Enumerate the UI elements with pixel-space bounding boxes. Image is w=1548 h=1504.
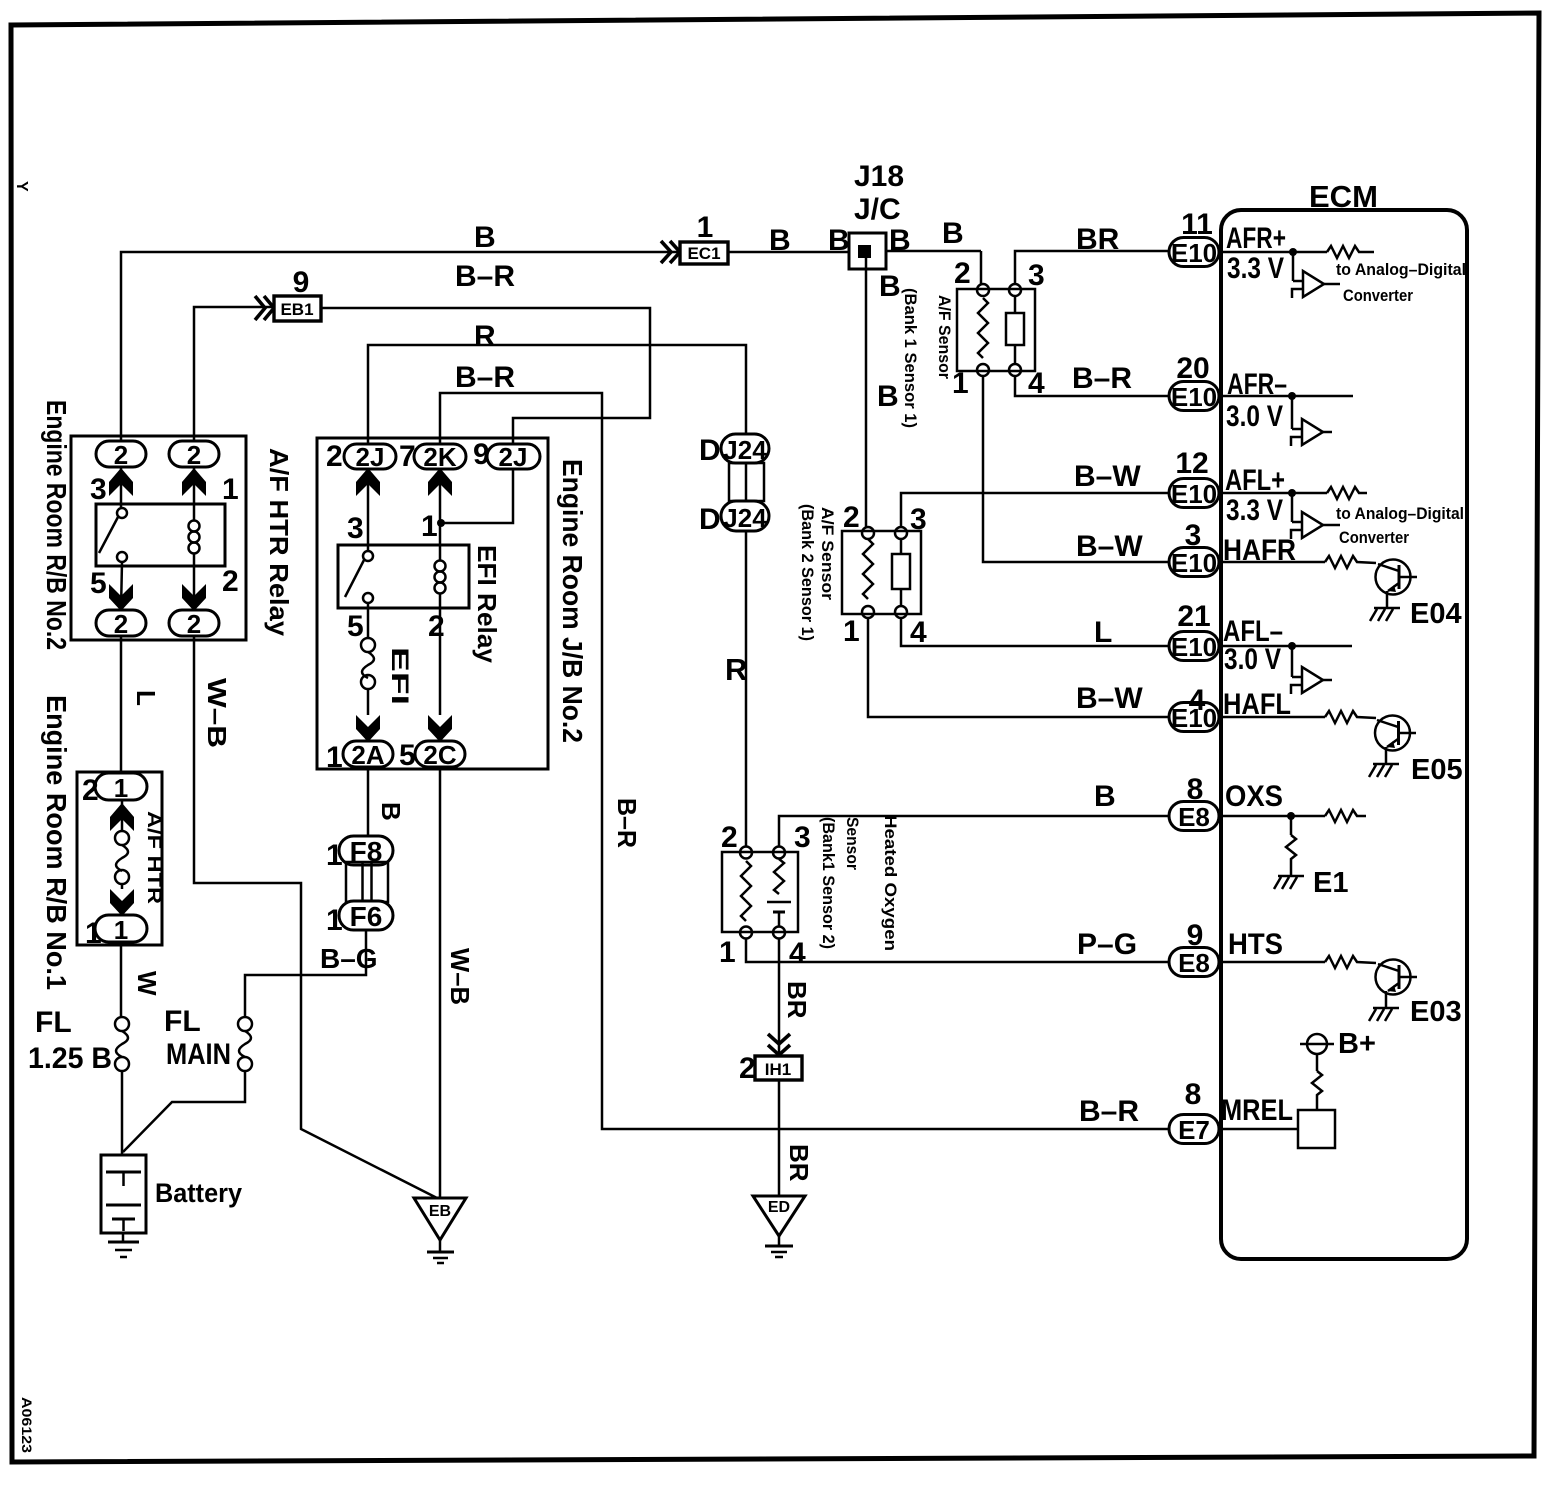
svg-text:IH1: IH1	[765, 1060, 791, 1079]
svg-text:HTS: HTS	[1228, 928, 1283, 961]
svg-text:1: 1	[719, 936, 736, 969]
svg-text:A/F HTR: A/F HTR	[143, 811, 164, 904]
svg-text:E10: E10	[1171, 548, 1217, 578]
svg-text:EC1: EC1	[687, 244, 720, 263]
svg-text:3: 3	[794, 821, 811, 854]
svg-text:B: B	[376, 802, 406, 821]
svg-text:B–G: B–G	[320, 943, 378, 974]
svg-text:B: B	[474, 221, 496, 254]
svg-text:W: W	[132, 971, 162, 996]
svg-text:3.3 V: 3.3 V	[1226, 494, 1283, 527]
svg-text:2: 2	[222, 565, 239, 598]
svg-text:OXS: OXS	[1225, 780, 1283, 813]
svg-text:BR: BR	[784, 1144, 814, 1182]
svg-text:2: 2	[114, 440, 128, 470]
svg-text:4: 4	[1189, 684, 1206, 717]
svg-text:B: B	[877, 380, 899, 413]
svg-text:FL: FL	[35, 1006, 72, 1039]
svg-text:B: B	[828, 224, 850, 257]
svg-text:3.0 V: 3.0 V	[1224, 643, 1281, 676]
svg-text:2: 2	[187, 440, 201, 470]
svg-text:(Bank1 Sensor 2): (Bank1 Sensor 2)	[819, 817, 838, 949]
svg-text:E10: E10	[1171, 382, 1217, 412]
svg-text:11: 11	[1181, 208, 1213, 241]
svg-text:L: L	[1094, 616, 1112, 649]
svg-text:1: 1	[843, 615, 860, 648]
svg-text:B–R: B–R	[612, 798, 642, 848]
svg-text:B–R: B–R	[455, 260, 515, 293]
svg-text:J18: J18	[854, 160, 904, 193]
svg-text:W–B: W–B	[202, 678, 232, 748]
svg-text:2C: 2C	[423, 740, 456, 770]
svg-text:2: 2	[843, 501, 860, 534]
svg-text:to Analog–Digital: to Analog–Digital	[1336, 504, 1464, 523]
svg-text:9: 9	[293, 266, 310, 299]
svg-text:AFR–: AFR–	[1227, 368, 1287, 401]
svg-text:2J: 2J	[499, 442, 528, 472]
svg-text:2K: 2K	[423, 442, 456, 472]
svg-text:8: 8	[1185, 1078, 1202, 1111]
svg-text:3.0 V: 3.0 V	[1226, 400, 1283, 433]
svg-text:2: 2	[739, 1052, 756, 1085]
svg-text:Engine Room R/B No.1: Engine Room R/B No.1	[41, 695, 72, 990]
svg-text:R: R	[474, 320, 496, 353]
svg-text:BR: BR	[1076, 223, 1120, 256]
svg-text:B: B	[879, 270, 901, 303]
svg-text:7: 7	[399, 440, 416, 473]
svg-text:F6: F6	[350, 901, 383, 932]
svg-text:4: 4	[789, 937, 806, 970]
svg-text:B–W: B–W	[1074, 460, 1141, 493]
svg-text:2: 2	[721, 821, 738, 854]
svg-text:1: 1	[222, 473, 239, 506]
svg-text:2J: 2J	[356, 442, 385, 472]
svg-text:B–W: B–W	[1076, 682, 1143, 715]
svg-text:B: B	[889, 224, 911, 257]
svg-text:to Analog–Digital: to Analog–Digital	[1336, 260, 1466, 279]
svg-text:Engine Room R/B No.2: Engine Room R/B No.2	[41, 400, 72, 650]
svg-text:Converter: Converter	[1343, 286, 1413, 305]
svg-text:12: 12	[1175, 447, 1208, 480]
svg-text:A/F Sensor: A/F Sensor	[818, 507, 837, 600]
svg-text:E10: E10	[1171, 632, 1217, 662]
svg-text:3: 3	[910, 503, 927, 536]
svg-text:HAFL: HAFL	[1223, 688, 1291, 721]
svg-text:D: D	[699, 503, 721, 536]
svg-text:HAFR: HAFR	[1223, 534, 1296, 567]
svg-text:1: 1	[85, 917, 102, 950]
svg-text:J/C: J/C	[854, 193, 901, 226]
svg-text:3: 3	[347, 512, 364, 545]
svg-text:3: 3	[90, 473, 107, 506]
svg-text:E1: E1	[1313, 867, 1348, 899]
svg-text:1: 1	[114, 773, 128, 803]
svg-text:Converter: Converter	[1339, 528, 1409, 547]
svg-text:Y: Y	[13, 181, 30, 192]
svg-text:2: 2	[428, 610, 445, 643]
svg-text:5: 5	[347, 610, 364, 643]
svg-text:FL: FL	[164, 1005, 201, 1038]
svg-text:(Bank 1 Sensor 1): (Bank 1 Sensor 1)	[901, 288, 920, 428]
svg-text:B–R: B–R	[1079, 1095, 1139, 1128]
svg-text:E04: E04	[1410, 598, 1462, 630]
svg-text:1: 1	[326, 904, 343, 937]
svg-text:E8: E8	[1178, 948, 1210, 978]
svg-text:EFI: EFI	[386, 647, 413, 705]
svg-text:3.3 V: 3.3 V	[1227, 252, 1284, 285]
svg-text:21: 21	[1177, 600, 1210, 633]
svg-text:P–G: P–G	[1077, 928, 1137, 961]
svg-text:EB: EB	[429, 1203, 451, 1220]
svg-text:A/F HTR Relay: A/F HTR Relay	[264, 448, 294, 637]
svg-text:B+: B+	[1338, 1028, 1376, 1060]
svg-text:5: 5	[90, 567, 107, 600]
svg-text:5: 5	[399, 739, 416, 772]
svg-text:E10: E10	[1171, 238, 1217, 268]
svg-text:J24: J24	[723, 503, 767, 533]
svg-text:J24: J24	[723, 435, 767, 465]
svg-text:E10: E10	[1171, 479, 1217, 509]
svg-text:1: 1	[326, 741, 343, 774]
svg-text:20: 20	[1176, 352, 1209, 385]
svg-text:B–R: B–R	[1072, 362, 1132, 395]
svg-text:2A: 2A	[351, 740, 384, 770]
svg-text:1: 1	[697, 211, 714, 244]
svg-text:8: 8	[1187, 773, 1204, 806]
svg-text:(Bank 2 Sensor 1): (Bank 2 Sensor 1)	[798, 504, 817, 641]
svg-text:3: 3	[1028, 259, 1045, 292]
svg-text:E7: E7	[1178, 1115, 1210, 1145]
svg-text:AFR+: AFR+	[1226, 222, 1286, 255]
svg-text:1: 1	[114, 915, 128, 945]
svg-text:L: L	[131, 690, 161, 706]
svg-text:Engine Room J/B No.2: Engine Room J/B No.2	[557, 459, 588, 743]
svg-text:3: 3	[1185, 519, 1202, 552]
svg-text:MREL: MREL	[1221, 1094, 1293, 1127]
svg-text:Sensor: Sensor	[843, 817, 862, 870]
svg-text:9: 9	[473, 438, 490, 471]
svg-text:MAIN: MAIN	[166, 1038, 231, 1071]
svg-text:BR: BR	[782, 981, 812, 1019]
svg-text:1.25 B: 1.25 B	[28, 1042, 112, 1075]
svg-text:2: 2	[114, 609, 128, 639]
svg-text:2: 2	[82, 774, 99, 807]
svg-text:B: B	[1094, 780, 1116, 813]
svg-text:A/F Sensor: A/F Sensor	[935, 295, 954, 379]
svg-text:E05: E05	[1411, 754, 1463, 786]
svg-text:EFI Relay: EFI Relay	[472, 545, 502, 664]
svg-text:2: 2	[954, 257, 971, 290]
svg-text:E8: E8	[1178, 802, 1210, 832]
svg-text:EB1: EB1	[280, 300, 313, 319]
svg-text:W–B: W–B	[445, 948, 475, 1005]
svg-text:B: B	[942, 217, 964, 250]
svg-text:1: 1	[421, 510, 438, 543]
svg-text:B–W: B–W	[1076, 530, 1143, 563]
svg-text:A06123: A06123	[19, 1397, 35, 1453]
svg-text:B–R: B–R	[455, 361, 515, 394]
svg-text:1: 1	[326, 839, 343, 872]
svg-text:4: 4	[910, 616, 927, 649]
svg-text:D: D	[699, 434, 721, 467]
svg-text:E03: E03	[1410, 996, 1462, 1028]
svg-text:2: 2	[326, 440, 343, 473]
svg-text:Battery: Battery	[155, 1178, 242, 1208]
svg-text:ED: ED	[768, 1199, 790, 1216]
svg-text:AFL+: AFL+	[1225, 464, 1285, 497]
svg-text:2: 2	[187, 609, 201, 639]
svg-text:9: 9	[1187, 919, 1204, 952]
svg-text:R: R	[725, 652, 747, 687]
svg-text:B: B	[769, 224, 791, 257]
svg-text:Heated Oxygen: Heated Oxygen	[881, 815, 900, 951]
